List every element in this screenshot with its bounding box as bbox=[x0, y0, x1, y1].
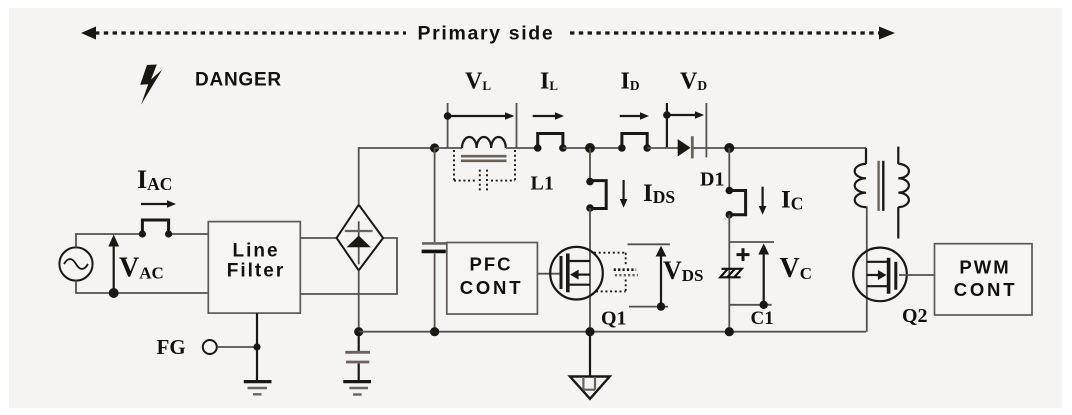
current loop IAC bbox=[142, 220, 168, 235]
VL measure terminal left bbox=[447, 103, 449, 148]
junction dot bbox=[726, 211, 734, 219]
wire C1 branch bbox=[728, 215, 730, 332]
arrow IL bbox=[533, 112, 564, 120]
wire primary to Q2 bbox=[866, 206, 868, 332]
svg-text:D1: D1 bbox=[700, 169, 724, 191]
parasitic capacitance dotted box of L1 bbox=[454, 150, 515, 190]
arrow IAC bbox=[141, 200, 176, 208]
ground FG bbox=[244, 382, 272, 395]
wire Q1 drain bbox=[589, 148, 591, 182]
wire rail bbox=[506, 147, 538, 149]
diode D1 bbox=[678, 136, 693, 158]
wire PFC gate bbox=[537, 273, 559, 275]
current loop IC bbox=[728, 191, 745, 215]
junction dot node D1/C1 bbox=[724, 143, 734, 153]
svg-text:Primary side: Primary side bbox=[418, 23, 555, 45]
wire bridge to bus bbox=[358, 270, 360, 331]
junction dot node drain Q1 bbox=[585, 143, 595, 153]
wire rail bbox=[563, 147, 622, 149]
mosfet Q1 bbox=[550, 247, 603, 300]
junction dot bbox=[618, 144, 626, 152]
VL measure terminal right bbox=[516, 103, 518, 148]
line filter box bbox=[208, 222, 300, 314]
wire Q1 vertical bbox=[589, 208, 591, 332]
current loop ID bbox=[622, 134, 647, 150]
junction dot bbox=[726, 187, 734, 195]
arrow VL bbox=[444, 112, 515, 120]
arrow IDS bbox=[620, 180, 628, 208]
mosfet Q2 bbox=[853, 248, 907, 302]
junction dot bbox=[253, 343, 260, 350]
wire AC top bbox=[76, 234, 142, 247]
wire Q2 gate bbox=[899, 274, 935, 276]
smoothing capacitor to ground bbox=[345, 332, 370, 381]
arrow VDS bbox=[656, 246, 667, 311]
PFC controller box bbox=[447, 243, 538, 315]
inductor L1 bbox=[461, 137, 507, 161]
transformer T1 secondary bbox=[898, 147, 909, 239]
junction dot bbox=[586, 178, 594, 186]
ground bbox=[343, 382, 371, 395]
terminal FG bbox=[203, 340, 217, 354]
danger lightning bolt bbox=[140, 65, 162, 105]
junction dot bbox=[430, 327, 439, 336]
wire rail bbox=[647, 147, 679, 149]
wire filter to ground bbox=[256, 313, 258, 381]
junction dot bbox=[559, 144, 567, 152]
AC source V1 bbox=[59, 247, 92, 280]
wire filter to bridge bottom bbox=[300, 238, 397, 294]
current loop IL bbox=[538, 134, 563, 150]
VC top plate line bbox=[729, 241, 774, 243]
wire rail bbox=[694, 147, 867, 149]
transformer core bbox=[879, 161, 884, 211]
junction dot bbox=[354, 327, 363, 336]
chassis ground triangle bbox=[570, 377, 610, 399]
arrow ID bbox=[620, 112, 649, 120]
svg-text:Filter: Filter bbox=[227, 261, 285, 282]
junction dot bbox=[139, 230, 146, 237]
wire filter to bridge top bbox=[300, 237, 336, 239]
capacitor C1 body zzz bbox=[720, 269, 742, 278]
VC bottom plate line bbox=[729, 304, 771, 306]
wire Q1 source to chassis bbox=[589, 332, 591, 376]
junction dot node rail/filter-cap bbox=[430, 143, 439, 152]
svg-text:PFC: PFC bbox=[470, 254, 513, 275]
transformer T1 primary bbox=[855, 148, 866, 207]
wire AC top right bbox=[169, 233, 209, 235]
wire C1 branch bbox=[728, 148, 730, 191]
svg-text:Line: Line bbox=[232, 241, 279, 262]
VDS top terminal line bbox=[628, 243, 671, 245]
wire rail bbox=[435, 147, 462, 149]
VD measure terminal left bbox=[666, 103, 668, 149]
svg-text:Q2: Q2 bbox=[902, 305, 928, 327]
bridge rectifier bbox=[337, 205, 384, 271]
junction dot bbox=[643, 144, 651, 152]
junction dot bbox=[725, 327, 734, 336]
parasitic capacitance dotted of Q1 bbox=[594, 253, 638, 292]
primary side right dotted arrow bbox=[570, 27, 895, 40]
wire bridge to main rail bbox=[359, 148, 435, 205]
svg-text:Q1: Q1 bbox=[601, 308, 627, 330]
VD measure terminal right bbox=[705, 103, 707, 157]
junction dot bbox=[165, 230, 172, 237]
arrow VC bbox=[758, 244, 769, 309]
svg-text:L1: L1 bbox=[531, 173, 554, 195]
arrow VD bbox=[663, 111, 704, 119]
arrow IC bbox=[759, 187, 767, 215]
svg-text:C1: C1 bbox=[751, 308, 774, 329]
VDS bottom terminal line bbox=[629, 306, 668, 308]
junction dot bbox=[586, 204, 594, 212]
plus polarity label bbox=[737, 253, 750, 256]
current loop IDS bbox=[590, 181, 606, 209]
svg-text:DANGER: DANGER bbox=[195, 70, 282, 91]
junction dot bbox=[109, 288, 119, 298]
junction dot bbox=[534, 144, 542, 152]
wire FG bbox=[217, 346, 257, 348]
svg-text:CONT: CONT bbox=[954, 279, 1018, 300]
wire AC bottom bbox=[76, 281, 208, 293]
svg-text:FG: FG bbox=[157, 335, 186, 359]
svg-text:CONT: CONT bbox=[460, 277, 524, 298]
bottom bus wire bbox=[359, 331, 866, 333]
primary side left dotted arrow bbox=[81, 27, 406, 40]
junction dot bus Q1 bbox=[585, 327, 594, 336]
arrow VAC bbox=[108, 235, 119, 294]
input filter capacitor bbox=[422, 148, 447, 332]
PWM controller box bbox=[935, 244, 1033, 315]
svg-text:PWM: PWM bbox=[959, 257, 1010, 278]
